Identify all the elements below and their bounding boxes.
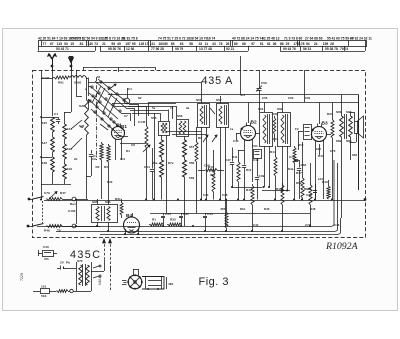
svg-text:58: 58 (189, 42, 193, 46)
svg-text:7229: 7229 (20, 273, 24, 281)
svg-text:M101: M101 (98, 277, 102, 285)
coil S14 (63, 124, 67, 139)
svg-text:53: 53 (64, 42, 68, 46)
svg-text:C14: C14 (144, 165, 150, 169)
svg-text:R48: R48 (44, 229, 50, 233)
wire B3 grid lead (311, 134, 312, 136)
svg-text:C44: C44 (253, 223, 259, 227)
IF transformer can S61 (260, 113, 273, 147)
on-off switch blade lower (33, 224, 44, 227)
svg-text:163: 163 (158, 42, 164, 46)
svg-text:C11: C11 (120, 157, 126, 161)
svg-text:63: 63 (180, 42, 184, 46)
svg-text:77: 77 (43, 42, 47, 46)
svg-text:B3: B3 (322, 121, 328, 127)
resistor R3 below switch (107, 144, 110, 162)
main chassis dashed border 435A (33, 71, 366, 238)
svg-text:C40: C40 (43, 245, 49, 249)
svg-text:C145: C145 (138, 120, 146, 124)
wire 435C links (91, 271, 104, 273)
svg-text:C34: C34 (165, 212, 171, 216)
resistor R48 (46, 225, 62, 228)
svg-text:26: 26 (226, 42, 230, 46)
svg-text:S84: S84 (352, 153, 358, 157)
svg-text:557: 557 (189, 145, 194, 149)
coil S19 (63, 164, 67, 179)
on-off switch blade upper (33, 197, 44, 200)
trimmer C52 (210, 108, 215, 114)
svg-text:28: 28 (330, 42, 334, 46)
svg-text:C100: C100 (42, 76, 50, 80)
wire can bottom link 1 (166, 131, 201, 133)
svg-text:S56: S56 (177, 114, 183, 118)
driver transformer S65 (92, 205, 118, 223)
loudspeaker (355, 122, 359, 134)
svg-text:C103: C103 (68, 209, 76, 213)
svg-text:71 9 73 8 80: 71 9 73 8 80 (284, 37, 302, 41)
capacitor block C61 (254, 150, 262, 159)
svg-text:S51: S51 (196, 98, 202, 102)
svg-text:B1: B1 (121, 124, 127, 129)
svg-text:C47: C47 (225, 158, 231, 162)
svg-text:C58: C58 (204, 164, 210, 168)
wire B1 cathode leads (115, 139, 117, 160)
terminal dot left AVC (28, 198, 31, 201)
trimmer capacitor C58 top (259, 70, 261, 88)
svg-text:178: 178 (299, 42, 305, 46)
wave band switch bracket (83, 67, 155, 69)
wire rail drop lower end (358, 95, 360, 191)
svg-text:4n1: 4n1 (240, 93, 245, 97)
wire osc coils verticals (161, 135, 163, 140)
svg-text:R1092A: R1092A (325, 241, 359, 252)
svg-text:C4: C4 (128, 87, 132, 91)
vibrator transformer S70 (76, 262, 78, 290)
svg-text:C48: C48 (253, 158, 259, 162)
svg-text:R91: R91 (58, 81, 64, 85)
svg-text:61: 61 (260, 42, 264, 46)
svg-text:101: 101 (41, 285, 46, 289)
svg-text:S20: S20 (79, 104, 85, 108)
svg-text:77 56 28: 77 56 28 (151, 47, 164, 51)
svg-text:S66: S66 (105, 200, 111, 204)
wire nested feed line 2 (130, 110, 168, 112)
oscillator can S56 (177, 120, 189, 137)
capacitor C34 (163, 213, 165, 216)
output transformer secondary S83 (349, 116, 353, 137)
junction dots on buses (145, 198, 147, 200)
svg-text:C79: C79 (44, 191, 50, 195)
svg-text:36: 36 (273, 42, 277, 46)
svg-text:73: 73 (94, 42, 98, 46)
IF transformer can S51 (198, 104, 210, 128)
svg-text:61: 61 (267, 42, 271, 46)
svg-text:k13: k13 (318, 177, 323, 181)
svg-text:C66: C66 (301, 163, 307, 167)
resistor R40 between cans (273, 116, 276, 134)
coil S18 (51, 157, 55, 172)
wire bus 4 (100, 234, 339, 236)
node circle 435C (70, 289, 73, 292)
svg-text:79 74: 79 74 (340, 47, 348, 51)
component location table main row box (39, 41, 367, 47)
svg-text:R19: R19 (322, 180, 328, 184)
svg-text:98 79: 98 79 (175, 47, 183, 51)
svg-text:39 32 24 32 11: 39 32 24 32 11 (350, 37, 372, 41)
svg-text:R33: R33 (107, 180, 113, 184)
pentode B2 (241, 126, 256, 141)
svg-text:R43: R43 (318, 154, 324, 158)
svg-text:7a: 7a (170, 106, 174, 110)
svg-text:Fig. 3: Fig. 3 (199, 276, 230, 288)
svg-text:k43: k43 (316, 147, 321, 151)
switch contact points (91, 86, 93, 88)
capacitor C47 mid (230, 162, 234, 164)
resistor C58b horizontal (205, 169, 217, 172)
svg-text:68: 68 (242, 42, 246, 46)
resistor R9a (195, 140, 198, 162)
svg-text:S83: S83 (346, 110, 352, 114)
terminal dot left heater (27, 225, 30, 228)
IF transformer can S62 (278, 113, 291, 147)
wire transformer leads b4 (97, 199, 99, 205)
wire transformer leads (341, 95, 343, 117)
svg-text:R48: R48 (310, 207, 316, 211)
svg-text:Pb: Pb (66, 261, 70, 265)
output tube B4 (124, 217, 140, 233)
pentode B3 (312, 127, 327, 142)
svg-text:S100: S100 (74, 81, 82, 85)
svg-text:38 54 19 70: 38 54 19 70 (190, 37, 208, 41)
coil S59 (183, 140, 187, 157)
resistor R17 (301, 176, 304, 198)
svg-text:Rb1: Rb1 (240, 207, 246, 211)
svg-text:67: 67 (50, 42, 54, 46)
svg-text:56 31: 56 31 (303, 47, 311, 51)
capacitor C103 (76, 201, 78, 224)
svg-text:89: 89 (234, 42, 238, 46)
svg-text:51E: 51E (41, 294, 47, 298)
svg-text:157: 157 (125, 42, 131, 46)
svg-text:78: 78 (219, 42, 223, 46)
svg-text:S2: S2 (138, 96, 142, 100)
coil S58 (160, 160, 164, 177)
svg-text:9a: 9a (186, 106, 190, 110)
svg-text:S65: S65 (92, 200, 98, 204)
svg-text:B4: B4 (126, 213, 132, 219)
svg-text:145: 145 (139, 42, 145, 46)
wire B2 plate lead (248, 103, 250, 124)
switch area stub wires (88, 86, 90, 88)
switch link dashed (42, 201, 44, 223)
svg-text:11: 11 (205, 42, 209, 46)
resistor R18 (309, 183, 312, 205)
svg-text:WA: WA (210, 173, 216, 177)
resistor R33 horizontal (167, 223, 181, 226)
capacitor C60 (242, 165, 246, 167)
wire B3 screen link (319, 144, 321, 155)
svg-text:R5a: R5a (152, 161, 158, 165)
resistor R1 horizontal (149, 223, 163, 226)
resistor R45 (225, 211, 228, 228)
output transformer primary S81 (340, 116, 344, 137)
resistor R11 below B2 (237, 160, 240, 182)
svg-text:5a: 5a (152, 106, 156, 110)
svg-text:1a: 1a (230, 127, 234, 131)
coil S60 (183, 160, 187, 177)
wire B3 plate (319, 103, 321, 125)
svg-text:R15: R15 (298, 143, 304, 147)
wire x91 stub (86, 176, 91, 178)
svg-text:R14: R14 (270, 150, 276, 154)
svg-text:S70: S70 (77, 259, 83, 263)
switch shaft dash-dot line (96, 77, 98, 160)
svg-text:S52: S52 (216, 98, 222, 102)
wire can S61 S62 leads (264, 146, 266, 187)
component location table lower row segments (38, 51, 96, 53)
wire B4 pins (125, 229, 127, 234)
svg-text:21: 21 (102, 42, 106, 46)
svg-text:97: 97 (251, 42, 255, 46)
switch S1 contact diagonals (90, 86, 121, 113)
switch wiper arrow right 1 (203, 135, 208, 142)
svg-text:R31: R31 (115, 197, 121, 201)
wire 435C bottom (91, 290, 93, 291)
capacitor C145 (145, 124, 148, 148)
svg-text:C44: C44 (207, 212, 213, 216)
wire top feed line y81 (88, 82, 201, 84)
svg-text:32: 32 (199, 42, 203, 46)
svg-text:4a: 4a (80, 125, 84, 129)
svg-text:140: 140 (87, 42, 93, 46)
svg-text:53 43 71: 53 43 71 (56, 47, 69, 51)
wire switch to coils links (71, 120, 82, 129)
svg-text:81: 81 (80, 42, 84, 46)
svg-text:37L: 37L (44, 257, 49, 261)
svg-text:29: 29 (286, 42, 290, 46)
wire mid link segment b (262, 190, 290, 192)
svg-text:C56: C56 (262, 96, 268, 100)
svg-text:80: 80 (164, 42, 168, 46)
output transformer core (344, 114, 346, 139)
svg-text:R2: R2 (96, 165, 100, 169)
svg-text:S61: S61 (258, 107, 264, 111)
wire HT rail top (108, 94, 359, 96)
wire stub x304 top (304, 70, 306, 103)
wire left bank junctions (41, 117, 52, 119)
input filter C100 R91 (53, 76, 70, 79)
wire B2 side leads (236, 133, 241, 135)
motor rim teeth (141, 281, 143, 283)
switch contacts 435C (93, 266, 99, 268)
svg-text:S81: S81 (336, 110, 342, 114)
svg-text:C70: C70 (330, 149, 336, 153)
svg-text:95: 95 (111, 42, 115, 46)
jack terminal Bu1 (72, 197, 76, 201)
dashed link arrows to 435C (104, 240, 106, 260)
wire S20 leads (86, 77, 88, 100)
input terminal 435C (41, 289, 50, 294)
resistor R60 435C (56, 290, 68, 293)
svg-text:R44: R44 (273, 137, 279, 141)
svg-text:92 21: 92 21 (226, 47, 234, 51)
svg-text:C1: C1 (54, 112, 58, 116)
svg-text:115: 115 (57, 42, 62, 46)
svg-text:43: 43 (212, 42, 216, 46)
capacitor C101 (56, 119, 60, 121)
switch wiper arrows (108, 84, 116, 90)
svg-text:R33: R33 (170, 218, 176, 222)
wire B3 cathode leads (315, 141, 317, 200)
earth aerial arrow (71, 56, 73, 70)
wire grid fan line 2 (114, 106, 146, 108)
svg-text:C9: C9 (92, 157, 96, 161)
capacitor C66 (297, 168, 301, 170)
svg-text:S1: S1 (97, 75, 101, 79)
svg-text:R12: R12 (246, 168, 252, 172)
resistor R10 below cans (212, 170, 215, 192)
capacitor C35 (181, 213, 183, 216)
capacitor C14 (150, 169, 154, 171)
wire rail y102 (148, 102, 359, 104)
svg-text:R12: R12 (246, 188, 252, 192)
wire can S52 leads (220, 127, 222, 200)
svg-text:F2: F2 (295, 127, 299, 131)
svg-text:15: 15 (70, 42, 74, 46)
resistor R14 (274, 155, 277, 176)
svg-text:435 A: 435 A (202, 75, 234, 87)
switch wiper arrow right 2 (212, 135, 217, 142)
svg-text:40 72 88 24 14 75 74: 40 72 88 24 14 75 74 (232, 37, 263, 41)
svg-text:C7b: C7b (306, 193, 312, 197)
svg-text:54: 54 (306, 42, 310, 46)
svg-text:27 64 88 69: 27 64 88 69 (305, 37, 323, 41)
wire stub top x240 (240, 56, 242, 70)
tuning capacitor rotor circle (124, 98, 130, 104)
diode box Fb (304, 125, 312, 140)
resistor R21 (331, 118, 334, 138)
oscillator coil S20 (85, 100, 89, 135)
dashed shaft to motor (110, 266, 112, 290)
wire nested feed line 3 (132, 113, 160, 115)
coil S57 (160, 140, 164, 157)
svg-text:4n4: 4n4 (306, 187, 312, 191)
svg-text:C7: C7 (124, 114, 128, 118)
svg-text:C46: C46 (334, 223, 340, 227)
svg-text:16 74: 16 74 (207, 37, 215, 41)
wire can bottom link 3 (120, 143, 146, 145)
motor left terminals (122, 280, 127, 282)
resistor R42 (293, 146, 296, 163)
svg-text:R21: R21 (327, 112, 333, 116)
vibrator motor unit (128, 275, 142, 289)
motor top leads (133, 269, 135, 276)
coil S17 (51, 137, 55, 152)
svg-text:13 77 48: 13 77 48 (199, 47, 212, 51)
wire ground bus (56, 231, 336, 233)
svg-text:S18: S18 (42, 161, 48, 165)
svg-text:S17: S17 (42, 141, 48, 145)
svg-text:T8: T8 (57, 229, 61, 233)
svg-text:C72: C72 (305, 223, 311, 227)
svg-text:C8: C8 (131, 143, 135, 147)
svg-text:C34: C34 (203, 193, 209, 197)
resistor R16 (281, 183, 284, 205)
svg-text:12 36: 12 36 (126, 47, 134, 51)
svg-text:S82: S82 (336, 139, 342, 143)
svg-text:C49: C49 (259, 174, 265, 178)
svg-text:R46: R46 (264, 207, 270, 211)
svg-text:R4: R4 (126, 149, 130, 153)
svg-text:86: 86 (280, 42, 284, 46)
triode B1 (112, 127, 125, 140)
resistor R12 below B2 (251, 184, 254, 205)
IF transformer can S52 (217, 104, 229, 128)
capacitor C49 mid (255, 177, 259, 179)
svg-text:17: 17 (145, 42, 149, 46)
wire nested feed line 1 (128, 106, 176, 108)
vibrator bracket housing (142, 277, 164, 290)
antenna A1 (52, 58, 54, 70)
wire antenna-2 lead down (52, 70, 54, 116)
wire can bottom link 2 (172, 134, 206, 136)
svg-text:R6a: R6a (296, 181, 302, 185)
svg-text:R47: R47 (60, 191, 66, 195)
wire heater bus (37, 226, 332, 228)
wire left bank bottom (52, 172, 54, 184)
svg-text:R1: R1 (152, 218, 156, 222)
oscillator can S55 (159, 122, 170, 136)
padder trimmer arrow (143, 145, 150, 152)
wire can S51 leads (201, 127, 203, 199)
svg-text:559: 559 (189, 176, 194, 180)
wire C100 left lead (41, 78, 53, 80)
svg-text:82 25 48 13: 82 25 48 13 (262, 37, 280, 41)
svg-text:S15: S15 (42, 121, 48, 125)
resistor R31 (120, 201, 123, 215)
wire mid link segment c (150, 213, 310, 215)
svg-text:S62: S62 (277, 107, 283, 111)
svg-text:74 75 51 7 29 6 72 18: 74 75 51 7 29 6 72 18 (158, 37, 190, 41)
capacitor C7b (315, 184, 317, 190)
svg-text:C71: C71 (289, 155, 295, 159)
svg-text:S55: S55 (151, 116, 157, 120)
svg-text:558: 558 (189, 161, 194, 165)
capacitor C71 (294, 159, 298, 161)
svg-text:R7a: R7a (168, 161, 174, 165)
volume potentiometer R1 (46, 198, 62, 201)
wire HT rail right drop (358, 95, 360, 191)
svg-text:C60: C60 (288, 96, 294, 100)
svg-text:Bu1: Bu1 (70, 202, 76, 206)
coil S15 (51, 117, 55, 132)
jack terminal Bu2 (72, 224, 76, 228)
resistor R2 below switch (100, 142, 103, 160)
svg-text:98 30 76: 98 30 76 (108, 47, 121, 51)
svg-text:2b: 2b (74, 157, 78, 161)
svg-text:45S: 45S (220, 207, 226, 211)
svg-text:C45: C45 (233, 139, 239, 143)
svg-text:65: 65 (171, 42, 175, 46)
svg-text:R4a: R4a (288, 167, 294, 171)
wire grid fan line 1 (112, 103, 176, 105)
svg-text:41: 41 (151, 42, 155, 46)
resistor R19 (327, 185, 330, 199)
svg-text:435C: 435C (70, 249, 101, 261)
coil S16 (63, 144, 67, 159)
svg-text:R40: R40 (273, 112, 279, 116)
svg-text:24: 24 (314, 42, 318, 46)
